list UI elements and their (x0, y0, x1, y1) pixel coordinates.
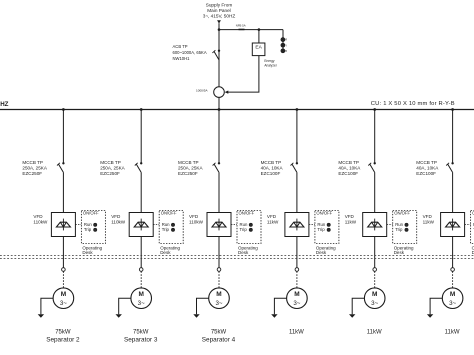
node J1 junction (218, 28, 221, 31)
wire VFD5 to desk (dashed link) (387, 224, 393, 226)
svg-text:MCCB TP: MCCB TP (178, 160, 199, 165)
svg-text:M: M (450, 291, 455, 298)
wire feeder 4 to VFD (296, 173, 298, 213)
VFD U1 symbol (62, 219, 64, 231)
svg-text:75kW: 75kW (211, 330, 227, 336)
ON/OFF control box 2 (159, 211, 183, 244)
terminal 1 (62, 268, 66, 272)
cable feeder 2 (dashed) (140, 271, 142, 288)
terminal 3 (217, 268, 221, 272)
svg-text:Desk: Desk (238, 250, 249, 255)
wire lamps drop (282, 30, 284, 51)
ON/OFF control box 3 (237, 211, 261, 244)
wire VFD3 to desk (dashed link) (231, 224, 237, 226)
svg-text:110kW: 110kW (33, 219, 48, 224)
cable feeder 1 (dashed) (62, 271, 64, 288)
breaker MCCB CB4 (296, 162, 298, 164)
svg-text:M: M (372, 291, 377, 298)
svg-text:ON/OFF: ON/OFF (316, 211, 332, 216)
VFD U4 box (285, 213, 309, 237)
cable feeder 3 (dashed) (218, 271, 220, 288)
breaker MCCB CB5 (374, 162, 376, 164)
VFD U5 box (363, 213, 387, 237)
svg-text:VFD: VFD (111, 214, 121, 219)
wire feeder 2 to VFD (140, 173, 142, 213)
wire supply drop (218, 23, 220, 109)
svg-text:MCCB TP: MCCB TP (100, 160, 121, 165)
svg-text:110kW: 110kW (189, 219, 204, 224)
cable feeder 5 (dashed) (374, 271, 376, 288)
wire VFD6 to desk (dashed link) (465, 224, 471, 226)
svg-text:3~: 3~ (371, 300, 378, 307)
svg-text:M: M (61, 291, 66, 298)
svg-text:3~: 3~ (215, 300, 222, 307)
wire VFD4 to desk (dashed link) (309, 224, 315, 226)
svg-text:NFB 5A: NFB 5A (236, 24, 246, 28)
breaker MCCB CB6 (451, 162, 453, 164)
lamp R (281, 38, 285, 42)
svg-text:Analyzer: Analyzer (264, 63, 277, 67)
svg-text:M: M (294, 291, 299, 298)
svg-text:50HZ: 50HZ (0, 101, 9, 108)
svg-text:CU: 1 X 50 X 10 mm for R-Y-B: CU: 1 X 50 X 10 mm for R-Y-B (371, 101, 455, 107)
ground motor 2 (119, 298, 131, 314)
node bus tap 5 (373, 108, 376, 111)
motor M4 (287, 288, 308, 309)
node bus tap 2 (140, 108, 143, 111)
wire feeder 5 below VFD (374, 237, 376, 268)
wire feeder 4 upper (296, 110, 298, 164)
svg-text:Desk: Desk (160, 250, 171, 255)
terminal 2 (139, 268, 143, 272)
svg-text:75kW: 75kW (133, 330, 149, 336)
svg-text:75kW: 75kW (55, 330, 71, 336)
wire feeder 6 upper (452, 110, 454, 164)
wire feeder 3 upper (218, 110, 220, 164)
wire to EA branch (219, 29, 283, 31)
ground motor 4 (274, 298, 286, 314)
svg-text:110kW: 110kW (111, 219, 126, 224)
svg-text:40A, 10KA: 40A, 10KA (261, 166, 284, 171)
svg-text:NW10H1: NW10H1 (173, 56, 191, 61)
svg-text:250A, 25KA: 250A, 25KA (22, 166, 47, 171)
ON/OFF control box 6 (471, 211, 474, 244)
ON/OFF control box 1 (81, 211, 105, 244)
fuse NFB (239, 29, 245, 31)
svg-text:VFD: VFD (345, 214, 355, 219)
wire feeder 6 below VFD (452, 237, 454, 268)
lamp Y (281, 43, 285, 47)
lamp B (281, 49, 285, 53)
svg-text:11kW: 11kW (423, 219, 435, 224)
svg-text:11kW: 11kW (267, 219, 279, 224)
node bus tap 1 (62, 108, 65, 111)
motor M3 (209, 288, 230, 309)
node bus tap 3 (218, 108, 221, 111)
CT meter circle (214, 87, 225, 98)
svg-text:MCCB TP: MCCB TP (416, 160, 437, 165)
VFD U6 symbol (452, 219, 454, 231)
svg-text:VFD: VFD (423, 214, 433, 219)
svg-text:Desk: Desk (394, 250, 405, 255)
VFD U2 symbol (140, 219, 142, 231)
svg-text:Energy: Energy (264, 59, 275, 63)
svg-text:11kW: 11kW (367, 330, 382, 336)
bus bar (0, 109, 474, 111)
ground motor 5 (352, 298, 364, 314)
terminal 5 (373, 268, 377, 272)
breaker MCCB CB3 (218, 162, 220, 164)
svg-text:Trip: Trip (395, 227, 403, 232)
svg-text:MCCB TP: MCCB TP (261, 160, 282, 165)
svg-text:Desk: Desk (82, 250, 93, 255)
svg-text:EZC100F: EZC100F (416, 171, 436, 176)
motor M2 (131, 288, 152, 309)
svg-text:EZC100F: EZC100F (338, 171, 358, 176)
wire VFD2 to desk (dashed link) (153, 224, 159, 226)
svg-text:ON/OFF: ON/OFF (394, 211, 410, 216)
svg-text:Main Panel: Main Panel (207, 8, 230, 13)
svg-text:Desk: Desk (316, 250, 327, 255)
breaker ACB (218, 50, 220, 52)
svg-text:M: M (138, 291, 143, 298)
wire feeder 3 below VFD (218, 237, 220, 268)
wire feeder 5 upper (374, 110, 376, 164)
svg-text:3~: 3~ (60, 300, 67, 307)
svg-text:3~: 3~ (449, 300, 456, 307)
wire EA to CT (227, 56, 259, 93)
svg-text:MCCB TP: MCCB TP (22, 160, 43, 165)
svg-text:40A, 10KA: 40A, 10KA (338, 166, 361, 171)
svg-text:1000/5A: 1000/5A (196, 89, 208, 93)
arrow to CT (225, 91, 229, 94)
terminal 6 (451, 268, 455, 272)
svg-text:11kW: 11kW (445, 330, 460, 336)
terminal 4 (295, 268, 299, 272)
operating desk boundary (dashed) (0, 255, 474, 257)
svg-text:600~1000A, 65KA: 600~1000A, 65KA (173, 50, 207, 55)
ON/OFF control box 4 (315, 211, 339, 244)
VFD U4 symbol (296, 219, 298, 231)
wire feeder 4 below VFD (296, 237, 298, 268)
svg-text:250A, 25KA: 250A, 25KA (178, 166, 203, 171)
svg-text:Separator 3: Separator 3 (124, 336, 158, 343)
svg-text:11kW: 11kW (289, 330, 304, 336)
svg-text:Supply From: Supply From (206, 2, 233, 7)
node bus tap 6 (451, 108, 454, 111)
svg-text:Separator 2: Separator 2 (46, 336, 80, 343)
wire feeder 5 to VFD (374, 173, 376, 213)
svg-text:EA: EA (255, 45, 262, 51)
supply arrow (217, 20, 221, 23)
VFD U6 box (441, 213, 465, 237)
VFD U2 box (129, 213, 153, 237)
svg-text:EZC250F: EZC250F (100, 171, 120, 176)
wire VFD1 to desk (dashed link) (75, 224, 81, 226)
svg-text:EZC100F: EZC100F (261, 171, 281, 176)
wire feeder 1 to VFD (62, 173, 64, 213)
ON/OFF control box 5 (393, 211, 417, 244)
node J2 junction (258, 28, 261, 31)
motor M6 (442, 288, 463, 309)
svg-text:ON/OFF: ON/OFF (239, 211, 255, 216)
wire feeder 2 upper (140, 110, 142, 164)
wire feeder 1 upper (62, 110, 64, 164)
svg-text:MCCB TP: MCCB TP (338, 160, 359, 165)
motor M1 (53, 288, 74, 309)
svg-text:ON/OFF: ON/OFF (161, 211, 177, 216)
svg-text:R: R (285, 39, 287, 42)
svg-text:EZC250F: EZC250F (178, 171, 198, 176)
svg-text:11kW: 11kW (345, 219, 357, 224)
cable feeder 6 (dashed) (452, 271, 454, 288)
svg-text:3~: 3~ (293, 300, 300, 307)
svg-text:Trip: Trip (84, 227, 92, 232)
wire feeder 2 below VFD (140, 237, 142, 268)
svg-text:Trip: Trip (240, 227, 248, 232)
svg-text:3~, 415V, 50HZ: 3~, 415V, 50HZ (203, 14, 236, 19)
svg-text:3~: 3~ (138, 300, 145, 307)
wire feeder 6 to VFD (452, 173, 454, 213)
svg-text:Separator 4: Separator 4 (202, 336, 236, 343)
svg-text:40A, 10KA: 40A, 10KA (416, 166, 439, 171)
VFD U1 box (51, 213, 75, 237)
meter EA box (252, 43, 265, 56)
node bus tap 4 (296, 108, 299, 111)
wire EA drop (258, 30, 260, 43)
svg-text:ON/OFF: ON/OFF (83, 211, 99, 216)
wire feeder 1 below VFD (62, 237, 64, 268)
svg-text:VFD: VFD (189, 214, 199, 219)
VFD U3 symbol (218, 219, 220, 231)
svg-text:Trip: Trip (317, 227, 325, 232)
motor M5 (364, 288, 385, 309)
svg-text:VFD: VFD (33, 214, 43, 219)
breaker MCCB CB2 (140, 162, 142, 164)
svg-text:250A, 25KA: 250A, 25KA (100, 166, 125, 171)
ground motor 6 (430, 298, 442, 314)
svg-text:EZC250F: EZC250F (22, 171, 42, 176)
svg-text:M: M (216, 291, 221, 298)
VFD U3 box (207, 213, 231, 237)
svg-text:ACB TP: ACB TP (173, 44, 188, 49)
ground motor 1 (41, 298, 53, 314)
VFD U5 symbol (374, 219, 376, 231)
svg-text:Trip: Trip (162, 227, 170, 232)
breaker MCCB CB1 (62, 162, 64, 164)
ground motor 3 (197, 298, 209, 314)
cable feeder 4 (dashed) (296, 271, 298, 288)
svg-text:VFD: VFD (267, 214, 277, 219)
wire feeder 3 to VFD (218, 173, 220, 213)
